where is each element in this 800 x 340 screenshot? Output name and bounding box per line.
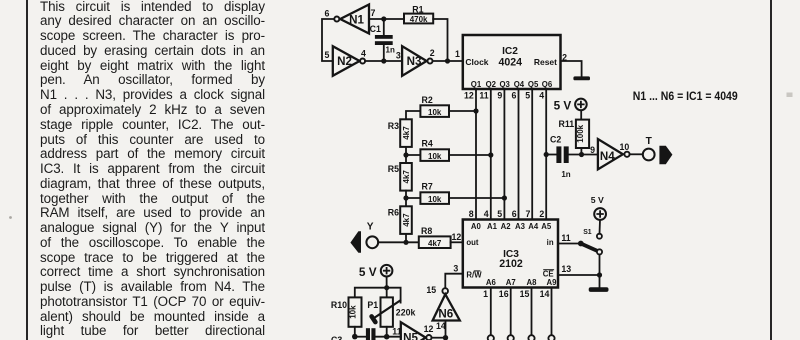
wire Q2 to A1 [490, 89, 492, 220]
svg-text:Q5: Q5 [528, 80, 539, 89]
svg-text:N4: N4 [600, 150, 615, 163]
svg-text:N6: N6 [438, 308, 453, 321]
svg-text:Q6: Q6 [542, 80, 553, 89]
svg-text:4k7: 4k7 [402, 170, 411, 184]
svg-text:C3: C3 [331, 335, 342, 340]
svg-text:1n: 1n [561, 170, 570, 179]
svg-text:A6: A6 [486, 278, 497, 287]
resistor R1 [404, 4, 433, 24]
svg-text:2: 2 [539, 209, 544, 219]
inverter N5 [401, 322, 432, 340]
inverter N2 [333, 46, 365, 76]
IC3 2102 RAM [463, 220, 558, 288]
potentiometer P1 [367, 297, 415, 336]
left column rule [26, 0, 28, 340]
resistor R4 [406, 139, 491, 163]
wire IC3 A9 to terminal [551, 288, 553, 336]
capacitor C1 [370, 19, 395, 61]
svg-text:R2: R2 [422, 95, 433, 105]
inverter N6 pointing up [433, 288, 460, 338]
svg-text:3: 3 [453, 263, 458, 273]
svg-text:14: 14 [540, 289, 550, 299]
svg-text:12: 12 [424, 324, 434, 334]
capacitor C3 [331, 328, 376, 340]
svg-text:5 V: 5 V [591, 195, 604, 205]
resistor R2 [406, 95, 476, 120]
svg-text:R/W: R/W [466, 271, 482, 280]
wire IC3 A8 to terminal [531, 288, 533, 336]
resistor R8 [419, 226, 463, 248]
svg-text:6: 6 [511, 91, 516, 101]
node junction P1 bottom [384, 334, 390, 340]
supply 5V at S1 [591, 195, 606, 234]
terminal circle A8 [528, 335, 534, 340]
smudge mark right margin [787, 93, 793, 98]
wire IC3 A6 to terminal [490, 288, 492, 336]
right column rule [770, 0, 772, 340]
svg-text:2102: 2102 [499, 258, 523, 270]
svg-text:7: 7 [525, 209, 530, 219]
svg-text:11: 11 [561, 233, 570, 243]
inverter N3 [402, 46, 432, 76]
inverter N4 [598, 139, 630, 169]
svg-text:N1 ... N6 = IC1 = 4049: N1 ... N6 = IC1 = 4049 [633, 89, 738, 103]
node junction R10 bottom [352, 334, 358, 340]
wire C3 to N5 input [376, 336, 401, 338]
node junction chain/R4 [403, 152, 408, 157]
svg-text:P1: P1 [367, 300, 378, 310]
resistor R11 [559, 110, 590, 155]
terminal T circle [643, 149, 655, 161]
supply 5V at P1 [359, 265, 393, 279]
wire Q4 to A3 [518, 89, 520, 220]
svg-text:1: 1 [455, 49, 460, 59]
svg-text:10: 10 [620, 142, 630, 152]
svg-text:N2: N2 [337, 55, 352, 68]
terminal Y circle [366, 236, 378, 248]
svg-text:R7: R7 [422, 182, 433, 192]
svg-text:R5: R5 [388, 164, 399, 174]
terminal circle A7 [508, 335, 514, 340]
svg-text:IC2: IC2 [502, 46, 518, 57]
wire N2 out to N3 in [365, 60, 402, 62]
terminal Y arrow [350, 231, 361, 253]
svg-text:12: 12 [464, 91, 474, 101]
svg-text:4024: 4024 [499, 57, 523, 69]
svg-text:A4: A4 [528, 222, 539, 231]
svg-text:Q3: Q3 [499, 80, 510, 89]
switch S1 [578, 229, 602, 254]
wire rail R10 to P1 wiper branch [355, 288, 401, 303]
svg-text:R4: R4 [422, 139, 433, 149]
node junction R11/N4 [579, 152, 584, 157]
wire Y to R8 [378, 241, 419, 243]
node junction C1 bottom [381, 58, 386, 63]
wire IC3 CE to S1 throw [558, 274, 600, 276]
svg-text:10k: 10k [428, 152, 442, 161]
ground at IC2 reset [573, 76, 590, 80]
wire N3 out to IC2 clock [433, 60, 463, 62]
node junction CE/S1 [597, 272, 602, 277]
svg-text:11: 11 [392, 326, 401, 336]
svg-text:5: 5 [525, 91, 530, 101]
svg-text:R6: R6 [388, 207, 399, 217]
svg-text:5 V: 5 V [554, 99, 572, 113]
svg-text:Y: Y [367, 222, 374, 233]
svg-text:4k7: 4k7 [402, 213, 411, 227]
svg-text:5: 5 [325, 50, 330, 60]
svg-text:A9: A9 [547, 278, 558, 287]
wire IC3 R/W to N6 output [445, 274, 463, 288]
svg-text:16: 16 [499, 289, 509, 299]
svg-text:N1: N1 [349, 13, 364, 26]
svg-text:C2: C2 [550, 135, 561, 145]
svg-text:10k: 10k [428, 195, 442, 204]
speck left margin [9, 216, 12, 219]
node junction Q6/C2 [544, 152, 549, 157]
terminal circle A6 [488, 335, 494, 340]
svg-text:15: 15 [426, 285, 436, 295]
wire Q6 to A5 [545, 89, 547, 220]
wire N1 input node to R1/C1 [369, 18, 404, 20]
svg-text:Clock: Clock [465, 57, 488, 67]
svg-text:C1: C1 [370, 24, 381, 34]
supply 5V at R11 [554, 99, 587, 113]
svg-text:A0: A0 [471, 222, 482, 231]
svg-text:9: 9 [497, 91, 502, 101]
svg-text:R11: R11 [559, 119, 575, 129]
ground at S1 [589, 287, 609, 292]
IC2 4024 counter [463, 35, 561, 89]
inverter N1 [334, 5, 369, 34]
svg-text:12: 12 [452, 232, 462, 242]
svg-text:2: 2 [430, 48, 435, 58]
svg-text:1n: 1n [386, 45, 395, 54]
svg-text:470k: 470k [410, 15, 428, 24]
svg-text:Q4: Q4 [514, 80, 525, 89]
node junction R1/clock [445, 58, 450, 63]
svg-text:10k: 10k [348, 305, 357, 319]
svg-text:Q1: Q1 [471, 80, 482, 89]
wire R1 right to clock node [433, 19, 447, 61]
terminal T arrow [659, 146, 672, 165]
svg-text:S1: S1 [583, 229, 592, 236]
svg-text:T: T [646, 136, 653, 147]
svg-text:4: 4 [539, 91, 544, 101]
svg-text:N3: N3 [407, 55, 422, 68]
svg-text:A7: A7 [506, 278, 516, 287]
wire Q6 to C2 [546, 154, 556, 156]
wire N4 out to T [630, 153, 643, 155]
svg-text:13: 13 [561, 264, 571, 274]
svg-text:8: 8 [469, 209, 474, 219]
terminal circle A9 [548, 335, 554, 340]
svg-text:in: in [547, 238, 554, 247]
svg-text:7: 7 [371, 8, 376, 18]
svg-text:Q2: Q2 [486, 80, 497, 89]
svg-text:A5: A5 [541, 222, 552, 231]
wire Q1 to A0 [475, 89, 477, 220]
svg-text:out: out [466, 238, 479, 247]
svg-text:14: 14 [436, 321, 446, 331]
svg-text:4k7: 4k7 [428, 239, 442, 248]
svg-text:10k: 10k [428, 108, 442, 117]
wire S1 to ground [599, 255, 601, 288]
svg-text:4: 4 [484, 209, 489, 219]
node junction Q3/R7 [502, 195, 507, 200]
svg-text:R1: R1 [412, 4, 423, 14]
node junction Q2/R4 [488, 152, 493, 157]
svg-text:100k: 100k [576, 124, 585, 142]
node junction chain/Y [403, 240, 408, 245]
node junction rail/5V [384, 285, 389, 290]
svg-text:Reset: Reset [534, 57, 557, 67]
svg-text:9: 9 [590, 145, 595, 155]
wire R10 to C3 [355, 336, 366, 338]
resistor R6 [388, 206, 412, 242]
wire 5V to R10/P1 rail [386, 277, 388, 298]
node junction Q1/R2 [473, 108, 478, 113]
svg-text:A2: A2 [501, 222, 512, 231]
wire Q5 to A4 [531, 89, 533, 220]
capacitor C2 [550, 135, 571, 179]
resistor R7 [406, 182, 504, 207]
wire N5 out to N6 in [432, 337, 446, 339]
wire Q3 to A2 [503, 89, 505, 220]
svg-text:6: 6 [325, 9, 330, 19]
svg-text:1: 1 [483, 289, 488, 299]
svg-text:6: 6 [512, 209, 517, 219]
svg-text:A3: A3 [515, 222, 526, 231]
node junction N1/R1/C1 [381, 16, 386, 21]
wire IC3 A7 to terminal [510, 288, 512, 336]
wire IC3 in to S1 [558, 243, 579, 245]
svg-text:R8: R8 [421, 226, 432, 236]
wire IC2 reset to ground [561, 61, 582, 76]
svg-text:N5: N5 [403, 332, 418, 340]
svg-text:4: 4 [361, 48, 366, 58]
svg-text:A8: A8 [527, 278, 538, 287]
wire oscillator feedback loop N1 out to N2 in [322, 19, 334, 61]
svg-text:15: 15 [520, 289, 530, 299]
article body text column [40, 0, 265, 339]
svg-text:220k: 220k [396, 307, 416, 317]
svg-text:5: 5 [497, 209, 502, 219]
svg-text:3: 3 [396, 51, 401, 61]
svg-text:R10: R10 [331, 300, 347, 310]
resistor R10 [331, 297, 362, 336]
svg-text:R3: R3 [388, 121, 399, 131]
resistor R3 [388, 119, 412, 147]
svg-text:4k7: 4k7 [402, 126, 411, 140]
wire C2 to N4 input [569, 154, 598, 156]
svg-text:A1: A1 [487, 222, 498, 231]
svg-text:5 V: 5 V [359, 265, 377, 279]
resistor R5 [388, 163, 412, 191]
node junction chain/R7 [403, 195, 408, 200]
svg-text:11: 11 [479, 91, 488, 101]
node junction N5/N6 [443, 335, 448, 340]
